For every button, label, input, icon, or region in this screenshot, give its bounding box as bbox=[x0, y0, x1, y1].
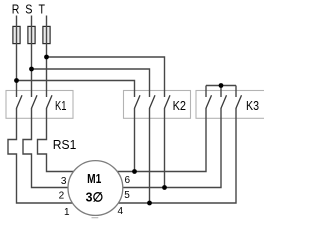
contactor K3 box bbox=[196, 91, 266, 119]
wire K1 output T through RS1 to motor terminal 3 bbox=[38, 108, 81, 172]
wire K2 output 3 to motor wire 5 bbox=[164, 108, 166, 188]
svg-text:2: 2 bbox=[59, 191, 65, 202]
wire K3 star bus bbox=[206, 85, 236, 87]
wire phase S vertical (top to K1 switch) bbox=[31, 16, 33, 98]
wire K1 output S through RS1 to motor terminal 2 bbox=[23, 108, 80, 188]
wire K2 output 2 to motor wire 4 bbox=[149, 108, 151, 203]
K3 switch blade pole 3 bbox=[236, 95, 242, 108]
K1 switch blade pole 1 bbox=[17, 95, 23, 108]
junction node K3 star point bbox=[219, 83, 224, 88]
wire K1 output R through RS1 to motor terminal 1 bbox=[8, 108, 80, 203]
junction node T branch bbox=[44, 55, 49, 60]
junction node motor wire 6 / K2 bbox=[132, 169, 137, 174]
wire K3 stub 1 bbox=[205, 86, 207, 98]
svg-text:K1: K1 bbox=[55, 98, 67, 113]
svg-text:1: 1 bbox=[64, 207, 70, 218]
wire phase R vertical (top to K1 switch) bbox=[16, 16, 18, 98]
svg-text:5: 5 bbox=[124, 190, 130, 201]
svg-text:K3: K3 bbox=[246, 98, 259, 113]
contactor K1 box bbox=[6, 91, 73, 119]
wire K3 stub 3 bbox=[235, 86, 237, 98]
K1 switch blade pole 3 bbox=[47, 95, 53, 108]
K3 switch blade pole 2 bbox=[221, 95, 227, 108]
K2 switch blade pole 2 bbox=[150, 95, 156, 108]
svg-text:3: 3 bbox=[61, 176, 67, 187]
wire phase T vertical (top to K1 switch) bbox=[46, 16, 48, 98]
junction node motor wire 5 / K2 bbox=[162, 185, 167, 190]
motor M1 circle bbox=[68, 161, 123, 216]
wire motor terminal 6 to K3 output 1 bbox=[110, 108, 206, 172]
svg-text:6: 6 bbox=[125, 175, 131, 186]
fuse F3 (phase T) bbox=[43, 26, 50, 43]
fuse F1 (phase R) bbox=[13, 26, 20, 43]
svg-text:3∅: 3∅ bbox=[86, 190, 104, 205]
svg-text:4: 4 bbox=[118, 206, 124, 217]
K2 switch blade pole 3 bbox=[165, 95, 171, 108]
contactor K2 box bbox=[124, 91, 191, 119]
K2 switch blade pole 1 bbox=[135, 95, 141, 108]
junction node S branch bbox=[29, 67, 34, 72]
svg-text:T: T bbox=[39, 2, 46, 17]
wire branch R to K2 input (node at 16.5,80.5) bbox=[17, 81, 135, 98]
wire motor terminal 4 to K3 output 3 bbox=[110, 108, 236, 203]
svg-text:R: R bbox=[12, 2, 20, 17]
svg-text:M1: M1 bbox=[87, 171, 101, 186]
svg-text:K2: K2 bbox=[173, 98, 186, 113]
svg-text:RS1: RS1 bbox=[53, 137, 77, 152]
wire K3 stub 2 bbox=[220, 86, 222, 98]
wire branch T to K2 input (node at 46.5,57) bbox=[47, 57, 165, 97]
wire motor terminal 5 to K3 output 2 bbox=[110, 108, 221, 188]
svg-text:S: S bbox=[25, 2, 32, 17]
wire branch S to K2 input (node at 31.5,69) bbox=[32, 69, 150, 97]
K3 switch blade pole 1 bbox=[206, 95, 212, 108]
K1 switch blade pole 2 bbox=[32, 95, 38, 108]
motor shaft tick under M1 bbox=[92, 217, 99, 219]
wire K2 output 1 to motor wire 6 bbox=[134, 108, 136, 172]
junction node motor wire 4 / K2 bbox=[147, 201, 152, 206]
fuse F2 (phase S) bbox=[28, 26, 35, 43]
junction node R branch bbox=[14, 78, 19, 83]
